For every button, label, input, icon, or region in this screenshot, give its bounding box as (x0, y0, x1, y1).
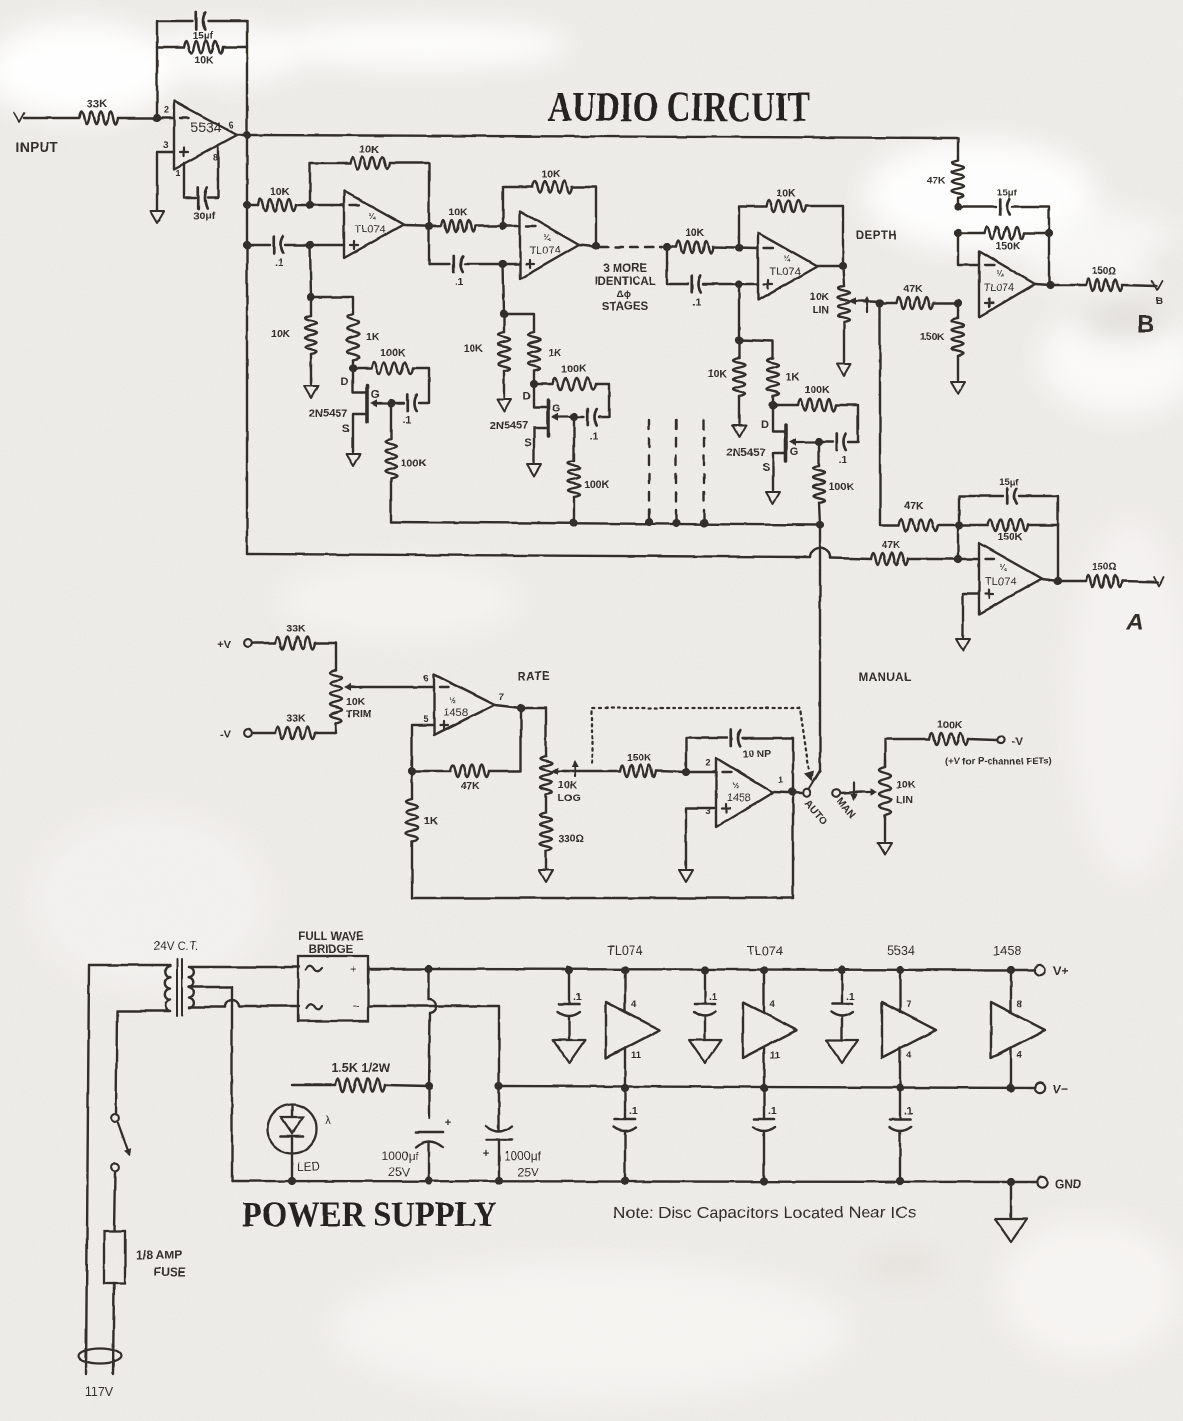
node LED 1.5K junction (425, 1082, 433, 1090)
node A fb left (955, 521, 963, 529)
wire gate rail down to switch (819, 525, 821, 771)
svg-text:AUDIO CIRCUIT: AUDIO CIRCUIT (548, 85, 810, 131)
wire B output (1035, 284, 1086, 285)
svg-text:10K: 10K (359, 144, 379, 156)
transformer T1 core (177, 959, 182, 1016)
wire stage1 1K branch (311, 297, 353, 368)
svg-text:LIN: LIN (896, 794, 913, 806)
svg-text:MANUAL: MANUAL (859, 672, 912, 684)
wire depth gate 100K leads (819, 442, 820, 525)
wire stage1 10K in (247, 204, 344, 206)
wire 47K top from rail (957, 138, 959, 207)
wire bottom rail to A mixer (247, 547, 958, 559)
resistor R19 100K (798, 384, 836, 411)
svg-text:G: G (371, 389, 380, 401)
terminal GND (1037, 1177, 1082, 1191)
node stage2 bias junction (500, 310, 508, 318)
svg-text:B: B (1137, 311, 1154, 338)
IC TL074 b (743, 944, 797, 1092)
svg-text:B: B (1155, 296, 1162, 307)
wire B output jack (1122, 281, 1162, 290)
wire depth feedback (739, 206, 843, 266)
resistor R26 150ohm (1086, 266, 1122, 291)
node stage2 gate rail (570, 519, 578, 527)
svg-text:TL074: TL074 (607, 944, 642, 958)
svg-text:.1: .1 (590, 430, 599, 442)
node B fb right (1045, 229, 1053, 237)
resistor R12 1K (528, 332, 562, 371)
svg-text:1.5K 1/2W: 1.5K 1/2W (331, 1061, 390, 1075)
node B fb cap left (954, 203, 962, 211)
svg-text:.1: .1 (904, 1105, 913, 1117)
IC 1458 (991, 944, 1045, 1092)
svg-text:2: 2 (163, 105, 168, 115)
node C12 bottom (425, 1177, 433, 1185)
svg-text:1K: 1K (424, 815, 438, 827)
resistor R27 150K (920, 318, 964, 356)
svg-text:RATE: RATE (518, 671, 550, 683)
wire -V to 33K (252, 723, 336, 733)
svg-text:47K: 47K (927, 175, 947, 187)
ground G13 (679, 870, 693, 882)
ground G1 (150, 211, 164, 223)
label +V for P-channel FETs (945, 756, 1052, 767)
wire V+ branch down (429, 969, 437, 1181)
wire lfo plus input (686, 808, 716, 868)
node dashed rail 2 (672, 519, 680, 527)
wire 47K to B plus (880, 302, 958, 304)
node stage1 drain (349, 364, 357, 372)
resistor R6 1K (347, 314, 380, 360)
svg-text:47K: 47K (460, 780, 480, 792)
wire stage2 10K in (429, 225, 520, 227)
node A minus (954, 555, 962, 563)
svg-text:150K: 150K (920, 331, 946, 343)
resistor R16 10K feedback (766, 187, 806, 212)
svg-text:V+: V+ (1053, 964, 1068, 978)
svg-text:3 MORE: 3 MORE (603, 263, 647, 275)
wire LED to gnd (291, 1153, 293, 1181)
svg-text:100K: 100K (804, 384, 830, 396)
wire stage2 bias vertical (503, 264, 504, 314)
wire A output (1042, 579, 1086, 581)
potentiometer MANUAL 10K LIN (879, 760, 916, 841)
svg-text:1458: 1458 (727, 792, 751, 804)
ground G2 (304, 386, 318, 398)
resistor R17 10K (708, 358, 745, 396)
svg-text:.1: .1 (839, 454, 848, 466)
op-amp U1 5534 (163, 101, 237, 178)
resistor R21 47K (to A minus) (871, 539, 908, 565)
wire stage2 gate (574, 416, 584, 418)
svg-text:Δϕ: Δϕ (617, 289, 631, 300)
op-amp U4 TL074 (758, 233, 817, 300)
svg-text:10K: 10K (776, 187, 796, 199)
node C13 top (495, 1082, 503, 1090)
resistor R7 100K (371, 347, 413, 374)
resistor R15 10K (676, 227, 713, 253)
capacitor C17 .1 disc (614, 1088, 638, 1185)
resistor R23 47K wiper (899, 500, 938, 531)
wire A output jack (1122, 577, 1164, 586)
ground G4 (497, 399, 511, 411)
svg-text:.1: .1 (709, 991, 718, 1003)
svg-text:11: 11 (770, 1050, 781, 1061)
svg-text:½: ½ (733, 781, 740, 790)
resistor R33 47K (450, 765, 489, 792)
resistor R4 10K feedback (350, 144, 390, 169)
label RATE (518, 671, 550, 683)
svg-text:BRIDGE: BRIDGE (309, 944, 354, 956)
resistor R3 10K (258, 186, 296, 211)
svg-text:A: A (1125, 609, 1143, 636)
ground G11 (878, 843, 892, 855)
op-amp U2 TL074 (344, 191, 404, 258)
node input junction (153, 114, 161, 122)
svg-text:15μf: 15μf (997, 188, 1017, 199)
resistor R8 100K (385, 439, 427, 479)
svg-text:D: D (523, 391, 531, 403)
node dashed rail 1 (645, 518, 653, 526)
resistor R34 1K (406, 799, 438, 841)
svg-text:4: 4 (1017, 1050, 1023, 1061)
ground G15 (553, 1040, 585, 1063)
node B output (1046, 281, 1054, 289)
label MANUAL (859, 672, 912, 684)
wire rate output (495, 705, 546, 756)
svg-text:10K: 10K (448, 206, 468, 218)
wire A 150K row (959, 524, 1058, 526)
title AUDIO CIRCUIT (548, 85, 810, 131)
wire 5534 plus input (157, 152, 174, 210)
svg-text:100K: 100K (584, 479, 610, 491)
svg-text:7: 7 (498, 692, 503, 702)
label DEPTH (856, 230, 897, 242)
wire stage2 10K gnd leads (503, 314, 505, 397)
node stage1 gate (387, 399, 395, 407)
wire 10K feedback row (157, 46, 247, 48)
resistor R31 33K (275, 623, 315, 649)
svg-text:TL074: TL074 (769, 266, 800, 278)
op-amp U5 TL074 (979, 251, 1035, 317)
wire depth 10K in (667, 247, 758, 248)
node A output (1054, 577, 1062, 585)
capacitor C2 30uf (184, 147, 218, 222)
svg-text:33K: 33K (87, 98, 107, 110)
node stage2 plus (499, 260, 507, 268)
wire log wiper to 150K (563, 771, 686, 772)
ground G5 (527, 464, 541, 476)
ground G12 (539, 870, 553, 882)
svg-text:1K: 1K (366, 331, 380, 343)
svg-text:10K: 10K (896, 779, 916, 791)
wire 47K to A feedback node (938, 524, 959, 526)
svg-text:TL074: TL074 (747, 944, 782, 958)
ground G6 (732, 425, 746, 437)
node LED gnd (288, 1177, 296, 1185)
svg-text:½: ½ (450, 696, 457, 705)
wire dotted gang link (571, 708, 814, 782)
svg-text:5534: 5534 (887, 944, 915, 958)
wire manual pot to 100K (885, 739, 996, 767)
ground G17 (826, 1040, 858, 1063)
svg-text:100K: 100K (937, 719, 963, 731)
label B outputs (1137, 296, 1162, 338)
LED D1 (268, 1105, 332, 1175)
capacitor C4 .1 (403, 395, 417, 426)
svg-text:47K: 47K (903, 283, 923, 295)
svg-text:8: 8 (212, 153, 217, 163)
svg-text:15μf: 15μf (999, 477, 1019, 488)
terminal V+ (1035, 964, 1068, 978)
capacitor C16 .1 disc (831, 966, 855, 1040)
svg-text:150Ω: 150Ω (1092, 562, 1117, 573)
svg-text:10K: 10K (346, 696, 366, 708)
svg-text:1: 1 (778, 775, 783, 785)
svg-text:47K: 47K (904, 500, 924, 512)
resistor R22 47K (896, 283, 933, 309)
wire stage2 100K loop (534, 384, 609, 417)
wire B fb right vertical (1048, 233, 1050, 285)
node stage1 minus (306, 201, 314, 209)
wire 1K leads (411, 771, 413, 898)
svg-text:TL074: TL074 (985, 576, 1016, 588)
svg-text:7: 7 (906, 999, 911, 1010)
svg-text:Note: Disc Capacitors Located: Note: Disc Capacitors Located Near ICs (613, 1205, 916, 1222)
svg-text:DEPTH: DEPTH (856, 230, 897, 242)
wire gate bias rail (391, 522, 820, 525)
svg-text:10K: 10K (685, 227, 705, 239)
svg-text:1: 1 (175, 168, 180, 178)
switch S2 mains (111, 1114, 131, 1171)
svg-text:25V: 25V (388, 1165, 409, 1179)
svg-text:3: 3 (163, 140, 168, 150)
wire GND rail (232, 1181, 1037, 1182)
svg-text:100K: 100K (401, 457, 427, 469)
svg-text:.1: .1 (573, 991, 582, 1003)
node wiper plus tap (876, 299, 884, 307)
node depth gate (815, 438, 823, 446)
resistor R9 10K (441, 206, 475, 232)
capacitor C1 15uf (193, 13, 214, 43)
wire V- rail (499, 1086, 1035, 1088)
svg-text:TL074: TL074 (354, 224, 385, 236)
svg-text:.1: .1 (403, 414, 412, 426)
wire A 15uf loop (959, 496, 1058, 525)
resistor R28 150K (988, 519, 1028, 543)
node stage2 minus (499, 222, 507, 230)
svg-text:150Ω: 150Ω (1092, 266, 1117, 277)
svg-text:S: S (524, 437, 531, 449)
node C13 bottom (495, 1177, 503, 1185)
svg-text:POWER SUPPLY: POWER SUPPLY (242, 1194, 497, 1234)
svg-text:.1: .1 (846, 991, 855, 1003)
svg-text:G: G (790, 446, 799, 458)
wire A fb right vertical (1057, 525, 1059, 581)
svg-text:10K: 10K (194, 54, 214, 66)
svg-text:4: 4 (770, 999, 776, 1010)
switch S1 auto/man (802, 771, 859, 828)
wire stage2 output (579, 245, 600, 247)
op-amp U8 1458 lfo (705, 758, 783, 827)
resistor R11 10K (464, 332, 510, 371)
node depth drain (769, 401, 777, 409)
resistor R13 100K (552, 363, 596, 390)
node stage2 drain (530, 380, 538, 388)
wire lfo fb right vertical (792, 738, 794, 898)
capacitor C5 .1 (454, 256, 464, 288)
resistor R10 10K feedback (532, 168, 572, 193)
wire dashed signal link (600, 246, 662, 248)
wire lfo output (773, 792, 802, 793)
svg-text:6: 6 (423, 673, 428, 683)
wire left rail down (246, 135, 248, 554)
capacitor C18 .1 disc (753, 1088, 777, 1185)
capacitor C11 10NP (731, 730, 772, 760)
svg-text:2N5457: 2N5457 (309, 408, 348, 420)
svg-text:150K: 150K (997, 531, 1023, 543)
wire bridge plus out (368, 968, 429, 970)
svg-text:1000μf: 1000μf (504, 1149, 542, 1163)
wire stage1 gate 100K leads (390, 403, 392, 522)
svg-text:4: 4 (631, 999, 637, 1010)
svg-text:D: D (341, 376, 349, 388)
svg-text:117V: 117V (85, 1385, 114, 1399)
svg-text:FUSE: FUSE (154, 1265, 186, 1279)
transistor Q3 2N5457 (727, 405, 819, 490)
svg-text:1K: 1K (548, 347, 562, 359)
wire B minus input (958, 233, 979, 265)
svg-text:-V: -V (1012, 736, 1024, 748)
svg-text:25V: 25V (517, 1165, 538, 1179)
svg-text:LOG: LOG (558, 792, 581, 804)
svg-text:S: S (342, 423, 349, 435)
wire depth cap in (667, 247, 758, 284)
wire depth 10K gnd leads (738, 340, 740, 423)
node stage2 output (592, 242, 600, 250)
terminal -V (220, 729, 252, 741)
wire depth gate (819, 441, 833, 443)
resistor R35 150K (620, 752, 656, 777)
ground G14 (995, 1219, 1027, 1242)
label 24V C.T. (154, 941, 198, 953)
svg-text:10K: 10K (270, 186, 290, 198)
wire lfo fb cap loop (686, 738, 793, 772)
svg-text:FULL WAVE: FULL WAVE (298, 931, 364, 943)
svg-text:-V: -V (220, 729, 232, 741)
svg-text:1458: 1458 (444, 707, 468, 719)
op-amp U7 1458 rate (423, 673, 503, 735)
note disc capacitors (613, 1205, 916, 1222)
resistor R14 100K (568, 461, 610, 497)
svg-text:150K: 150K (995, 240, 1021, 252)
capacitor C14 .1 disc (558, 966, 582, 1040)
svg-text:1458: 1458 (993, 944, 1021, 958)
svg-text:1/8 AMP: 1/8 AMP (136, 1248, 182, 1262)
resistor R24 47K (927, 160, 964, 198)
node dashed rail 3 (700, 519, 708, 527)
wire stage1 bias vertical (310, 245, 311, 297)
IC 5534 (882, 944, 936, 1092)
svg-text:100K: 100K (829, 481, 855, 493)
svg-text:11: 11 (631, 1050, 642, 1061)
terminal -V supply (997, 736, 1023, 748)
terminal V- (1035, 1082, 1068, 1096)
svg-text:+V: +V (217, 639, 231, 651)
bridge rectifier BR1 (298, 931, 368, 1021)
wire depth output (817, 265, 843, 267)
node 5534 output (243, 131, 251, 139)
transformer T1 secondary (189, 967, 299, 1181)
svg-text:G: G (552, 403, 561, 415)
transformer T1 primary (89, 965, 170, 1114)
wire lfo minus in (686, 771, 716, 773)
wire trim wiper to 1458 (360, 686, 434, 688)
node rate fb junction (408, 767, 416, 775)
wire 47K fb row (412, 708, 521, 771)
svg-text:10K: 10K (541, 168, 561, 180)
capacitor C8 .1 (837, 434, 848, 466)
svg-text:2N5457: 2N5457 (727, 447, 766, 459)
op-amp U3 TL074 (520, 211, 579, 279)
wire man to pot wiper (840, 783, 877, 801)
node stage1 in lower (243, 241, 251, 249)
node lfo output (788, 788, 796, 796)
svg-text:V−: V− (1053, 1082, 1068, 1096)
svg-text:100K: 100K (380, 347, 406, 359)
wire top rail 5534 output (237, 135, 958, 138)
node gnd stub (1007, 1178, 1015, 1186)
wire stage1 gate (391, 402, 404, 404)
wire stage1 cap in (247, 244, 344, 246)
svg-text:.1: .1 (693, 296, 702, 308)
svg-text:.1: .1 (455, 276, 464, 288)
svg-text:4: 4 (906, 1050, 912, 1061)
svg-text:330Ω: 330Ω (558, 833, 584, 845)
svg-text:10K: 10K (810, 291, 830, 303)
node stage1 plus (306, 241, 314, 249)
resistor R1 33K (79, 98, 118, 125)
potentiometer TRIM 10K (330, 670, 372, 723)
capacitor C12 1000uf (382, 1117, 452, 1179)
wire fuse to plug (113, 1283, 114, 1374)
svg-text:5534: 5534 (190, 119, 221, 135)
capacitor C19 .1 disc (889, 1088, 913, 1185)
svg-text:150K: 150K (626, 752, 652, 764)
svg-text:IDENTICAL: IDENTICAL (594, 276, 655, 288)
resistor R2 10K (184, 41, 223, 66)
wire lfo bottom link (412, 897, 793, 899)
wire feedback right vertical (246, 21, 248, 135)
svg-text:GND: GND (1055, 1177, 1082, 1191)
wire feedback loop left/top (157, 21, 247, 118)
svg-text:10K: 10K (558, 779, 578, 791)
wire depth 1K branch (739, 340, 773, 405)
svg-text:6: 6 (228, 120, 233, 130)
ground G7 (766, 492, 780, 504)
svg-text:30μf: 30μf (193, 210, 215, 222)
wire gnd stub (1010, 1182, 1012, 1219)
wire switch to fuse (114, 1172, 115, 1231)
svg-text:10K: 10K (271, 328, 291, 340)
input terminal (14, 113, 59, 155)
resistor R18 1K (767, 358, 800, 396)
svg-text:10K: 10K (708, 368, 728, 380)
svg-text:1K: 1K (786, 371, 800, 383)
wire stage2 feedback (503, 187, 596, 245)
node B plus (954, 299, 962, 307)
title POWER SUPPLY (242, 1194, 497, 1234)
